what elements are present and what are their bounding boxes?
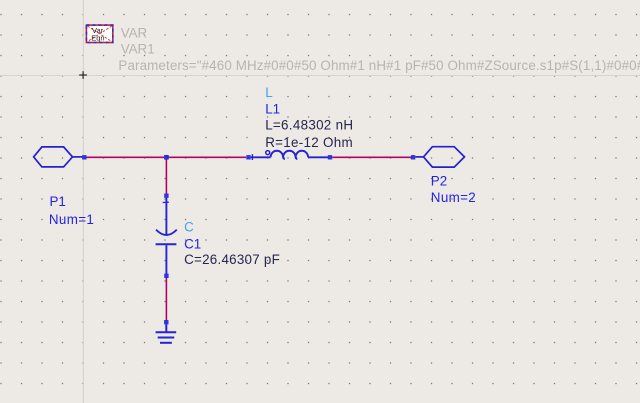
port P1 [34, 147, 83, 167]
svg-text:C=26.46307 pF: C=26.46307 pF [184, 252, 280, 267]
svg-text:C1: C1 [184, 236, 201, 251]
node square at P2 pin [411, 155, 415, 159]
ground symbol [156, 324, 177, 342]
svg-text:R=1e-12 Ohm: R=1e-12 Ohm [265, 135, 353, 150]
svg-text:Num=2: Num=2 [431, 190, 476, 205]
node square at P1 pin [82, 155, 86, 159]
svg-text:P2: P2 [431, 174, 447, 189]
svg-text:Num=1: Num=1 [49, 212, 94, 227]
x-axis line [0, 75, 640, 77]
pin1 tick of C1 [163, 201, 169, 203]
svg-text:L1: L1 [265, 101, 280, 116]
capacitor C1 [156, 198, 177, 274]
svg-text:P1: P1 [50, 194, 66, 209]
svg-text:L: L [265, 85, 272, 100]
wire L1 to P2 [332, 156, 411, 158]
wire junction to inductor [169, 156, 247, 158]
svg-text:Parameters="#460 MHz#0#0#50 Oh: Parameters="#460 MHz#0#0#50 Ohm#1 nH#1 p… [118, 58, 640, 73]
junction node square [164, 155, 169, 160]
wire C1 to ground [165, 278, 167, 320]
node square at L1 pin2 [328, 155, 332, 159]
node square at ground pin [164, 320, 168, 324]
node square at C1 pin1 [164, 194, 168, 198]
pin1 circle of L1 [266, 151, 270, 155]
origin cross [79, 71, 87, 79]
node square at L1 pin1 [246, 155, 250, 159]
port P2 [415, 147, 464, 167]
node square at C1 pin2 [164, 274, 168, 278]
equation block U:VAR1 icon [86, 25, 112, 42]
inductor L1 [251, 151, 328, 159]
svg-text:VAR1: VAR1 [121, 42, 155, 57]
svg-text:VAR: VAR [121, 25, 148, 40]
svg-text:C: C [184, 220, 194, 235]
wire P1 to junction [87, 156, 165, 158]
y-axis line [82, 0, 84, 403]
pin1 tick of L1 [251, 154, 253, 160]
wire junction down to C1 [165, 160, 167, 194]
svg-text:Eqn: Eqn [91, 34, 104, 43]
svg-text:L=6.48302 nH: L=6.48302 nH [265, 117, 353, 132]
